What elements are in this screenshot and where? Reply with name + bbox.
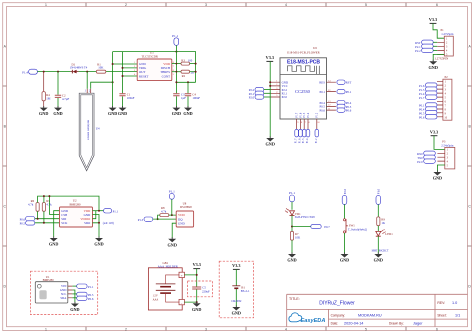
flag P1.5 p2 bbox=[419, 87, 437, 92]
wire C4 branch bbox=[187, 82, 189, 107]
svg-text:SDO: SDO bbox=[84, 221, 91, 225]
svg-text:SDA: SDA bbox=[60, 296, 67, 300]
wire flag to sw1 bbox=[344, 204, 346, 218]
wire R3 to right rail bbox=[190, 63, 196, 65]
IC U2 BME280 bbox=[60, 198, 93, 227]
power V3.3 battery bbox=[193, 262, 201, 269]
svg-text:P1.5: P1.5 bbox=[302, 138, 305, 143]
svg-text:P0.5: P0.5 bbox=[20, 222, 26, 226]
flag P0.1 bbox=[337, 89, 352, 94]
flag P1.1 u1 bbox=[77, 284, 94, 289]
svg-text:4: 4 bbox=[285, 3, 287, 7]
node module gnd pin bbox=[269, 81, 271, 83]
svg-text:P1.1: P1.1 bbox=[289, 191, 295, 195]
svg-text:3: 3 bbox=[205, 328, 207, 332]
svg-text:1µF: 1µF bbox=[181, 96, 186, 100]
node thres-x crossing bbox=[176, 71, 178, 73]
svg-text:C: C bbox=[468, 205, 471, 209]
svg-text:-: - bbox=[181, 301, 182, 305]
svg-text:P0.6: P0.6 bbox=[88, 297, 94, 301]
flag RST bbox=[337, 80, 352, 85]
svg-text:2: 2 bbox=[125, 3, 127, 7]
wire R2 to right rail bbox=[190, 71, 196, 73]
battery B1 CR2032 bbox=[231, 286, 250, 303]
svg-text:5: 5 bbox=[173, 74, 175, 76]
ground below R4 bbox=[39, 106, 48, 116]
capacitor C3 bbox=[173, 92, 186, 99]
svg-text:DIYRuZ_Flower: DIYRuZ_Flower bbox=[319, 301, 355, 307]
svg-text:P0.6: P0.6 bbox=[346, 109, 352, 113]
wire U1 gnd bbox=[72, 290, 75, 303]
svg-text:CR2032: CR2032 bbox=[231, 299, 242, 303]
svg-text:6: 6 bbox=[436, 3, 438, 7]
module bottom pin stubs bbox=[297, 119, 321, 129]
svg-text:P0.6: P0.6 bbox=[319, 108, 325, 112]
svg-text:U4: U4 bbox=[96, 127, 100, 131]
flag P1.0 led bbox=[376, 188, 381, 204]
svg-text:P1.1: P1.1 bbox=[113, 209, 119, 213]
diode D1 1N4148WS bbox=[70, 62, 88, 73]
flag P0.5 u1 bbox=[77, 292, 94, 297]
flag P0.7 bbox=[311, 224, 331, 229]
svg-text:Company:: Company: bbox=[331, 313, 346, 317]
svg-text:P1.4: P1.4 bbox=[307, 112, 310, 117]
svg-text:1: 1 bbox=[85, 90, 87, 93]
node sensor gnd junction bbox=[112, 81, 114, 83]
wire sensor pin1 to input net bbox=[86, 72, 88, 89]
wire sensor pin2 to gnd rail bbox=[91, 82, 113, 89]
flag P1.7 bottom bbox=[295, 129, 299, 143]
svg-text:10K: 10K bbox=[98, 66, 104, 70]
sensor pin 1 bbox=[85, 89, 88, 93]
ground below C3 bbox=[172, 106, 181, 116]
svg-text:BS-2-1: BS-2-1 bbox=[241, 289, 250, 293]
wire sw1 to gnd bbox=[344, 233, 346, 254]
U1 pin stubs bbox=[68, 286, 73, 298]
flag P1.4 bbox=[22, 69, 37, 74]
flag P2.1 bbox=[249, 91, 271, 96]
svg-text:BME280: BME280 bbox=[43, 278, 55, 282]
wire V3.3 to P1 pin1 bbox=[433, 23, 444, 38]
module pins P0.4-P0.6 stubs bbox=[327, 100, 336, 110]
flag P0.6 p2 bbox=[419, 115, 437, 120]
LED LED1 bbox=[372, 229, 394, 252]
resistor R8 bbox=[160, 206, 169, 216]
flag P0.6 sdi bbox=[20, 217, 35, 222]
power V3.3 P3 bbox=[430, 129, 438, 136]
flag P1.1 vd1 bbox=[289, 191, 295, 202]
flag P2.0 sw bbox=[342, 188, 347, 204]
flag P2.0 p3 bbox=[417, 159, 435, 164]
svg-text:P1.3: P1.3 bbox=[138, 218, 144, 222]
node R6 sdi bbox=[37, 218, 39, 220]
battery holder GB1 bbox=[148, 261, 184, 310]
wire P1 pin5 to gnd bbox=[433, 54, 444, 61]
ground below C1 bbox=[118, 106, 127, 116]
ground coin cell bbox=[232, 305, 241, 315]
moisture sensor probe U4 bbox=[79, 93, 100, 171]
ground ds18b20 bbox=[168, 237, 177, 247]
node R8 dq bbox=[157, 218, 159, 220]
node C4 branch junction bbox=[187, 81, 189, 83]
switch SW1 bbox=[343, 219, 367, 233]
antenna meander bbox=[288, 66, 320, 75]
svg-text:1.5V: 1.5V bbox=[153, 295, 158, 298]
svg-text:E18-MS1-PCB_FLOWER: E18-MS1-PCB_FLOWER bbox=[287, 50, 319, 54]
node divider junction bbox=[291, 226, 293, 228]
node TRIG junction bbox=[122, 67, 124, 69]
svg-text:P2.0: P2.0 bbox=[249, 96, 255, 100]
svg-text:P2.2: P2.2 bbox=[415, 49, 421, 53]
svg-text:220uF: 220uF bbox=[202, 289, 210, 293]
flag P1.4 p2 bbox=[419, 91, 437, 96]
wire bme gnd right / sdo bbox=[93, 215, 100, 237]
svg-text:1.27X5PIN: 1.27X5PIN bbox=[435, 57, 450, 61]
flag P2.2 bbox=[249, 87, 271, 92]
svg-text:1: 1 bbox=[45, 328, 47, 332]
node sdo gnd bbox=[98, 222, 100, 224]
ground led bbox=[374, 252, 383, 262]
wire cont bottom link bbox=[176, 81, 195, 83]
wire THRES pin to R2 bbox=[172, 71, 181, 73]
wire flag to vdd junction bbox=[172, 199, 176, 215]
svg-text:RESET: RESET bbox=[139, 74, 149, 78]
svg-text:4.7k: 4.7k bbox=[161, 210, 167, 214]
ground P1 bbox=[429, 60, 438, 70]
ground sw1 bbox=[340, 252, 349, 262]
node R4 junction bbox=[43, 71, 45, 73]
wire flag to vd1 bbox=[291, 202, 293, 210]
resistor R4 bbox=[42, 92, 51, 101]
svg-text:P1.4: P1.4 bbox=[22, 70, 28, 74]
svg-text:4.7µF: 4.7µF bbox=[62, 97, 69, 101]
svg-text:AAA: AAA bbox=[153, 298, 159, 301]
node CSB rail bbox=[48, 195, 50, 197]
node bme vdd bbox=[98, 210, 100, 212]
node vdd-x crossing bbox=[176, 63, 178, 65]
wire ds gnd bbox=[172, 223, 176, 238]
svg-text:1: 1 bbox=[45, 3, 47, 7]
power V3.3 P1 bbox=[429, 17, 437, 24]
svg-text:P1.1: P1.1 bbox=[169, 190, 175, 194]
flag P1.1 ds18b20 bbox=[169, 190, 175, 200]
svg-text:moisture sensor: moisture sensor bbox=[86, 120, 90, 141]
IC U8 DS18B20 bbox=[176, 201, 193, 227]
power V3.3 module bbox=[266, 55, 274, 62]
flag P1.6 bottom bbox=[298, 129, 302, 143]
svg-text:2: 2 bbox=[276, 84, 277, 86]
svg-text:Drawn By:: Drawn By: bbox=[389, 322, 404, 326]
svg-text:D: D bbox=[468, 285, 471, 289]
wire bme gnd pin bbox=[54, 211, 60, 237]
svg-text:1M: 1M bbox=[46, 97, 51, 101]
svg-text:P0.6: P0.6 bbox=[419, 116, 425, 120]
svg-text:RST: RST bbox=[346, 81, 352, 85]
resistor R2 bbox=[181, 70, 195, 78]
flag P1.1 top bbox=[172, 34, 179, 45]
ground U1 bbox=[70, 302, 79, 312]
svg-text:P1.2: P1.2 bbox=[315, 138, 318, 143]
flag P2.0 bbox=[249, 95, 271, 100]
ground vd1 bbox=[287, 252, 296, 262]
wire SCK bbox=[35, 222, 60, 224]
svg-text:D: D bbox=[3, 285, 6, 289]
svg-text:1K: 1K bbox=[381, 221, 386, 225]
wire bme vdd to flag bbox=[93, 210, 104, 212]
svg-text:100nF: 100nF bbox=[192, 96, 200, 100]
wire 555 vdd rail top bbox=[113, 52, 196, 83]
svg-text:8: 8 bbox=[301, 122, 303, 124]
svg-text:4.7k: 4.7k bbox=[28, 203, 34, 207]
wire module vcc/gnd rail bbox=[269, 61, 271, 137]
ground battery bbox=[192, 302, 201, 312]
wire main input net y=71.6 bbox=[37, 71, 137, 73]
svg-text:RES: RES bbox=[319, 80, 325, 84]
flag P0.5 p2 bbox=[419, 111, 437, 116]
node module vcc pin bbox=[269, 85, 271, 87]
wire vddio tie bbox=[93, 211, 96, 219]
svg-text:2: 2 bbox=[125, 328, 127, 332]
svg-text:C: C bbox=[3, 205, 6, 209]
svg-text:10K: 10K bbox=[295, 235, 301, 239]
svg-text:P2.0: P2.0 bbox=[282, 95, 288, 99]
flag P1.7 p2 bbox=[419, 95, 437, 100]
svg-text:LED1: LED1 bbox=[385, 232, 393, 236]
flag RX0 p3 bbox=[417, 151, 435, 156]
svg-text:VD1: VD1 bbox=[295, 212, 301, 216]
svg-text:7: 7 bbox=[305, 122, 307, 124]
resistor R9 bbox=[377, 217, 386, 226]
svg-text:1: 1 bbox=[134, 62, 135, 64]
flag P1.4 bottom bbox=[306, 129, 310, 143]
svg-text:3: 3 bbox=[205, 3, 207, 7]
svg-text:4: 4 bbox=[285, 328, 287, 332]
node r8 vdd junction bbox=[171, 214, 173, 216]
wire R8 left to DQ bbox=[158, 215, 172, 219]
svg-text:P1.6: P1.6 bbox=[298, 138, 301, 143]
svg-text:B: B bbox=[468, 125, 471, 129]
wire VIN to flag bbox=[72, 285, 76, 287]
wire C1 branch bbox=[123, 52, 138, 108]
flag P1.2 bottom bbox=[315, 129, 319, 143]
node R5 sck bbox=[43, 222, 45, 224]
connector P2 header 10pin bbox=[437, 75, 452, 120]
svg-text:2020-04-14: 2020-04-14 bbox=[344, 322, 363, 326]
wire flag to R9 bbox=[377, 204, 379, 217]
wire SDI bbox=[35, 218, 60, 220]
resistor R7 bbox=[290, 231, 301, 240]
svg-text:(adr 118): (adr 118) bbox=[103, 221, 114, 225]
svg-text:P0.1: P0.1 bbox=[346, 90, 352, 94]
wire led to gnd bbox=[377, 236, 379, 253]
flag P1.1 bme bbox=[104, 209, 119, 214]
node C2 junction bbox=[57, 71, 59, 73]
svg-text:MODKAM.RU: MODKAM.RU bbox=[358, 313, 382, 317]
svg-text:P1.5: P1.5 bbox=[303, 112, 306, 117]
wire r7 to gnd bbox=[291, 240, 293, 254]
wire DQ bbox=[153, 218, 176, 220]
wire SCL to flag bbox=[72, 293, 76, 295]
flag TX0 p3 bbox=[417, 155, 435, 160]
flag P0.6 u1 bbox=[77, 296, 94, 301]
svg-text:P0.7: P0.7 bbox=[324, 225, 330, 229]
module U6 E18-MS1-PCB_FLOWER bbox=[280, 46, 327, 119]
svg-text:16: 16 bbox=[317, 122, 320, 124]
svg-text:AAA_HOLDER: AAA_HOLDER bbox=[158, 265, 178, 269]
flag P0.6 bbox=[337, 108, 352, 113]
svg-text:SW1: SW1 bbox=[349, 224, 356, 228]
ground bme right bbox=[94, 236, 103, 246]
svg-text:R2: R2 bbox=[182, 74, 186, 78]
svg-text:P1.1: P1.1 bbox=[88, 285, 94, 289]
svg-text:P1.1: P1.1 bbox=[172, 34, 178, 38]
svg-text:EasyEDA: EasyEDA bbox=[301, 318, 326, 324]
capacitor C5 bbox=[192, 286, 210, 294]
svg-text:1N4148WS T4: 1N4148WS T4 bbox=[70, 65, 88, 69]
wire C3 lower lead bbox=[175, 96, 177, 107]
svg-text:P1.7: P1.7 bbox=[419, 96, 425, 100]
svg-text:CONT: CONT bbox=[162, 74, 171, 78]
svg-text:100: 100 bbox=[188, 58, 193, 62]
svg-text:REV:: REV: bbox=[437, 301, 445, 305]
svg-text:2.54x5pin: 2.54x5pin bbox=[441, 143, 454, 147]
resistor R1 bbox=[96, 62, 105, 73]
wire CSB bbox=[49, 214, 59, 216]
node 555 gnd pin junction bbox=[112, 63, 114, 65]
svg-text:SGB-PT56 C3528: SGB-PT56 C3528 bbox=[295, 216, 315, 219]
dashed option box B1 bbox=[219, 261, 253, 318]
svg-text:P1.2: P1.2 bbox=[316, 112, 319, 117]
dashed option box U1 bbox=[31, 271, 98, 314]
svg-text:TLC555CDR: TLC555CDR bbox=[142, 55, 158, 59]
op-amp U5 TLC555CDR timer bbox=[134, 51, 175, 81]
node R2 right bbox=[195, 71, 197, 73]
flag P2.2 p1 bbox=[415, 48, 437, 53]
node v3.3 junction bbox=[196, 274, 198, 276]
node R5 top bbox=[43, 195, 45, 197]
wire battery plus to v3.3 rail bbox=[184, 269, 196, 303]
connector P1 1.27x5pin bbox=[435, 28, 454, 60]
svg-text:1.0: 1.0 bbox=[452, 301, 457, 305]
photodiode VD1 bbox=[285, 208, 315, 219]
svg-text:P2.0: P2.0 bbox=[417, 160, 423, 164]
wire coin cell bbox=[235, 269, 237, 306]
svg-text:CC2530: CC2530 bbox=[295, 89, 310, 94]
svg-text:2: 2 bbox=[134, 66, 135, 68]
svg-text:1/1: 1/1 bbox=[455, 313, 460, 317]
node gnd junction bbox=[196, 301, 198, 303]
flag P0.4 p2 bbox=[419, 107, 437, 112]
svg-text:5: 5 bbox=[365, 3, 367, 7]
svg-text:7: 7 bbox=[173, 66, 175, 68]
flag P0.5 sck bbox=[20, 221, 35, 226]
svg-text:P1.4: P1.4 bbox=[306, 138, 309, 143]
node C3 top junction bbox=[175, 81, 177, 83]
module pin RES stub bbox=[327, 79, 336, 92]
svg-text:1.27x5pin: 1.27x5pin bbox=[441, 32, 454, 36]
svg-text:P2.0: P2.0 bbox=[343, 188, 347, 194]
flag P0.4 bbox=[337, 101, 352, 106]
svg-text:DS18B20: DS18B20 bbox=[180, 205, 192, 209]
wire SDA to flag bbox=[72, 297, 76, 299]
capacitor C1 bbox=[119, 92, 134, 99]
node RESET junction bbox=[122, 75, 124, 77]
flag P0.5 bbox=[337, 104, 352, 109]
resistor R6 bbox=[28, 199, 39, 211]
svg-text:Date:: Date: bbox=[331, 322, 339, 326]
svg-text:6: 6 bbox=[436, 328, 438, 332]
node R3 right bbox=[195, 63, 197, 65]
wire R4 lead bbox=[43, 72, 45, 108]
wire vd1 to r7 bbox=[291, 215, 293, 231]
svg-text:6: 6 bbox=[309, 122, 311, 124]
flag RST p1 bbox=[415, 40, 437, 45]
resistor R3 bbox=[181, 58, 193, 65]
svg-text:5: 5 bbox=[365, 328, 367, 332]
power V3.3 coin cell bbox=[232, 263, 240, 270]
wire C2 lead bbox=[57, 72, 59, 108]
ground below C2 bbox=[53, 106, 62, 116]
node sensor junction bbox=[86, 71, 88, 73]
EasyEDA logo bbox=[289, 313, 325, 324]
svg-text:TITLE:: TITLE: bbox=[289, 297, 300, 301]
svg-text:T_Switch(4x4x2): T_Switch(4x4x2) bbox=[348, 229, 367, 232]
svg-text:P1.0: P1.0 bbox=[377, 188, 381, 194]
dashed option box C5 bbox=[188, 281, 213, 297]
svg-text:100nF: 100nF bbox=[127, 96, 135, 100]
wire bme vdd rail bbox=[38, 196, 99, 223]
wire R9 to LED bbox=[377, 226, 379, 232]
wire P3 pin5 to gnd bbox=[437, 165, 444, 172]
flag P1.6 p2 bbox=[419, 83, 437, 88]
svg-text:R3: R3 bbox=[181, 58, 185, 62]
svg-text:BME280: BME280 bbox=[70, 202, 82, 206]
module U1 BME280 breakout bbox=[35, 275, 68, 303]
capacitor C2 bbox=[55, 93, 70, 101]
svg-text:SCK: SCK bbox=[61, 221, 68, 225]
svg-text:P0.1: P0.1 bbox=[319, 90, 325, 94]
svg-text:E18-MS1-PCB: E18-MS1-PCB bbox=[287, 59, 320, 65]
flag P1.3 bbox=[138, 217, 153, 222]
resistor R5 bbox=[42, 199, 52, 211]
svg-text:9: 9 bbox=[297, 122, 298, 124]
ground module bbox=[266, 136, 275, 146]
svg-text:+: + bbox=[181, 274, 183, 278]
svg-text:1: 1 bbox=[276, 80, 277, 82]
module pin stubs left bbox=[271, 82, 280, 97]
svg-text:Sheet:: Sheet: bbox=[437, 313, 446, 317]
wire VDD pin to R3 bbox=[172, 63, 181, 65]
wire V3.3 to P3 pin1 bbox=[434, 136, 445, 150]
ground bme left bbox=[49, 236, 58, 246]
svg-text:P2: P2 bbox=[445, 75, 449, 79]
svg-text:P1.7: P1.7 bbox=[296, 112, 299, 117]
svg-text:Jager: Jager bbox=[413, 322, 423, 326]
ground 555 left bbox=[108, 106, 117, 116]
capacitor C4 bbox=[185, 92, 201, 99]
flag P2.1 p1 bbox=[415, 44, 437, 49]
svg-text:2K: 2K bbox=[191, 71, 196, 75]
svg-text:MHT190CRCT: MHT190CRCT bbox=[372, 249, 389, 252]
wire P1.1 flag drop to C3 bbox=[175, 45, 177, 93]
connector P3 2.54x5pin bbox=[437, 140, 454, 169]
svg-text:P1.6: P1.6 bbox=[299, 112, 302, 117]
flag P1.5 bottom bbox=[302, 129, 306, 143]
svg-text:A: A bbox=[468, 45, 471, 49]
wire to P0.7 flag bbox=[292, 226, 311, 228]
wire 555 left gnd rail bbox=[113, 52, 138, 108]
ground P3 bbox=[433, 170, 442, 180]
